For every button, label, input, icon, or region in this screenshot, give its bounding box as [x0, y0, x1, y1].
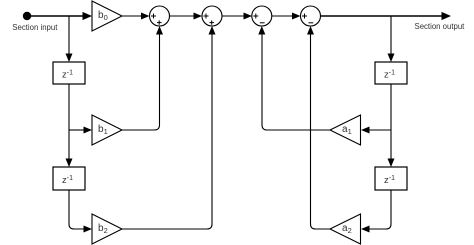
wire: right delay2 to gain a2	[361, 190, 391, 233]
wire: tap to gain b1	[69, 127, 92, 134]
amplifier a2	[330, 214, 361, 244]
amplifier b1	[92, 115, 122, 145]
summing junction S1	[150, 6, 170, 26]
amplifier b0	[92, 1, 122, 31]
wire: output tap down to right delay 1	[388, 16, 395, 62]
delay block Z1 left	[53, 62, 85, 84]
label: z^-1 right 1	[384, 69, 395, 80]
delay block Z1 right	[375, 62, 407, 84]
label: b1	[98, 124, 108, 136]
wire: input tap down to left delay 1	[66, 16, 73, 62]
wire: b0 to summer S1	[122, 13, 150, 20]
wire: S1 to summer S2	[170, 13, 203, 20]
amplifier b2	[92, 214, 122, 244]
wire: right delay1 to right delay2	[388, 84, 395, 167]
delay block Z2 right	[375, 167, 407, 190]
amplifier a1	[330, 115, 361, 145]
wire: a2 to S4	[307, 26, 330, 229]
wire: a1 to S3	[258, 26, 330, 130]
svg-text:Section input: Section input	[12, 23, 58, 32]
wire: S3 to summer S4	[272, 13, 301, 20]
summing junction S4	[301, 6, 321, 26]
label: z^-1 right 2	[384, 175, 395, 186]
wire: b1 to S1	[122, 26, 163, 130]
node: section input terminal	[23, 12, 31, 20]
wire: left delay1 to left delay2	[66, 84, 73, 167]
label: Section input	[12, 23, 58, 32]
wire: S2 to summer S3	[222, 13, 252, 20]
summing junction S3	[252, 6, 272, 26]
label: Section output	[415, 22, 466, 31]
label: b0	[98, 10, 108, 22]
label: z^-1 left 2	[62, 175, 73, 186]
delay block Z2 left	[53, 167, 85, 190]
summing junction S2	[202, 6, 222, 26]
wire: input line to gain b0	[27, 12, 92, 20]
wire: tap to gain a1	[361, 127, 391, 134]
wire: output line	[321, 12, 452, 20]
label: a1	[342, 124, 352, 136]
label: a2	[342, 223, 352, 235]
label: z^-1 left 1	[62, 69, 73, 80]
wire: left delay2 to gain b2	[69, 190, 92, 233]
wire: b2 to S2	[122, 26, 216, 229]
svg-text:Section output: Section output	[415, 22, 466, 31]
label: b2	[98, 223, 108, 235]
